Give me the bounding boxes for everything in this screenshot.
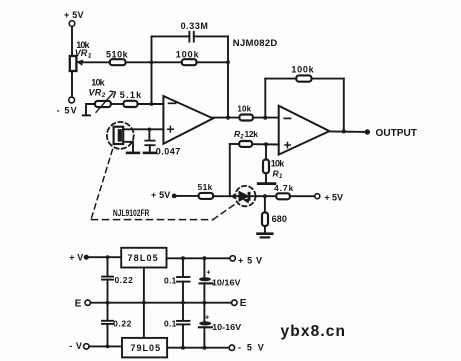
+V terminal: [84, 255, 89, 260]
svg-text:+: +: [205, 312, 210, 321]
capacitor 0.22 (bottom): [102, 321, 113, 324]
svg-text:10k: 10k: [91, 78, 105, 88]
ground (680): [258, 232, 273, 235]
VR1 wiper arrow: [78, 61, 87, 65]
svg-text:4.7k: 4.7k: [274, 183, 293, 193]
-5V supply terminal: [69, 97, 75, 103]
capacitor 0.1 (top): [177, 277, 190, 282]
wire feedback2 top left: [265, 78, 296, 80]
wire R1 bottom to ground: [265, 173, 267, 182]
+5V output terminal: [230, 256, 235, 261]
dashed circle around sensor: [107, 122, 134, 149]
svg-text:E: E: [240, 298, 247, 309]
svg-text:2: 2: [239, 135, 244, 141]
svg-text:0.33M: 0.33M: [181, 21, 208, 31]
node cap tap: [148, 128, 152, 132]
resistor 680 (vertical): [262, 212, 268, 226]
wire 680 top: [264, 196, 266, 212]
VR2 arrow: [96, 94, 113, 113]
ground (sensor): [127, 152, 139, 155]
microphone / sensor NJL9102FR element: [114, 127, 124, 144]
wire R1 top: [265, 144, 267, 159]
svg-text:0.1: 0.1: [164, 319, 177, 329]
node inv2: [263, 116, 267, 120]
svg-text:NJL9102FR: NJL9102FR: [113, 208, 150, 218]
resistor 51k: [199, 193, 214, 199]
wire VR1 bottom to -5V: [71, 71, 73, 97]
+5V supply terminal (top left): [69, 21, 75, 27]
wire sensor to op-amp + input: [123, 128, 163, 130]
node transistor right: [263, 194, 267, 198]
svg-text:10-16V: 10-16V: [212, 322, 241, 332]
svg-text:+ 5V: + 5V: [64, 10, 84, 20]
svg-text:510k: 510k: [106, 49, 129, 59]
regulator 78L05 box: [121, 248, 166, 268]
wire +V to 78L05: [89, 256, 121, 258]
svg-text:2: 2: [101, 92, 106, 99]
potentiometer VR1 10k body: [70, 56, 77, 71]
svg-text:0.22: 0.22: [115, 275, 134, 285]
wire node B vertical: [227, 36, 229, 117]
wire 10k to op-amp2 inverting input: [253, 117, 279, 119]
wire 680 bottom: [264, 226, 266, 233]
node nin2: [264, 142, 268, 146]
svg-text:VR: VR: [75, 48, 88, 58]
wire feedback2 right vertical: [343, 79, 345, 132]
svg-text:10k: 10k: [237, 105, 251, 114]
wire 0.22 caps vertical: [107, 257, 109, 276]
power junctions: [106, 255, 110, 259]
dashed circle around transistor: [235, 186, 255, 206]
wire regulator ground vertical: [143, 268, 145, 338]
wire node A to 100k: [152, 61, 182, 63]
wire 78L05 out to +5V: [167, 257, 231, 259]
ground (0.047): [144, 152, 156, 155]
svg-text:NJM082D: NJM082D: [233, 38, 278, 49]
wire node A vertical: [151, 36, 153, 104]
resistor R1 10k (vertical): [263, 160, 269, 174]
wire 51k to transistor: [213, 195, 239, 197]
svg-text:VR: VR: [89, 88, 102, 98]
wire -V to 79L05: [89, 345, 122, 347]
svg-text:+ 5 V: + 5 V: [238, 256, 262, 266]
svg-text:680: 680: [272, 214, 287, 224]
svg-text:5.1k: 5.1k: [120, 90, 142, 100]
node op1 out: [226, 116, 230, 120]
resistor 510k: [110, 59, 126, 65]
svg-text:+ 5V: + 5V: [151, 190, 170, 200]
wire 0.33M to node B vertical: [194, 35, 228, 37]
wire 510k to node A: [126, 61, 152, 63]
capacitor 10/16V electrolytic (top): [199, 277, 211, 281]
svg-text:-V: -V: [69, 341, 82, 351]
wire op-amp1 output to 10k: [213, 117, 239, 119]
wire cap 0.047 tap: [148, 129, 150, 140]
svg-text:0.047: 0.047: [156, 146, 181, 156]
regulator 79L05 box: [122, 338, 167, 358]
node A: [150, 60, 154, 64]
resistor 5.1k: [123, 101, 137, 107]
svg-text:+V: +V: [69, 252, 83, 262]
wire top to 0.33M cap: [152, 35, 190, 37]
wire to 12k: [230, 143, 239, 145]
phototransistor Q1 body: [239, 191, 249, 201]
capacitor 0.33M: [189, 32, 193, 42]
resistor 100k (second stage feedback): [296, 75, 311, 81]
wire 100k to node B: [197, 61, 229, 63]
svg-text:+ 5V: + 5V: [324, 192, 343, 202]
wire 4.7k to +5V terminal: [290, 195, 315, 197]
svg-text:+: +: [206, 268, 211, 277]
resistor 100k (first stage feedback): [182, 59, 197, 65]
svg-text:12k: 12k: [245, 129, 259, 139]
wire 79L05 out to -5V: [167, 347, 229, 349]
wire wiper to 510k: [84, 61, 110, 63]
svg-text:- 5 V: - 5 V: [238, 343, 264, 353]
resistor 10k (interstage): [239, 115, 253, 121]
capacitor 0.22 (top): [102, 277, 113, 280]
op-amp U1b triangle: [279, 106, 330, 155]
wire feedback2 top right: [312, 78, 344, 80]
capacitor 10-16V electrolytic (bottom): [199, 321, 211, 325]
wire 12k vertical from transistor node: [229, 144, 231, 196]
svg-text:51k: 51k: [198, 182, 213, 192]
-V terminal: [84, 344, 89, 349]
svg-text:79L05: 79L05: [131, 343, 161, 353]
-5V output terminal: [229, 345, 234, 350]
wire 12k to op-amp2 + input: [252, 143, 279, 145]
wire op-amp2 output: [329, 130, 364, 133]
wire +5V to 51k: [177, 195, 199, 197]
wire 5.1k to op-amp inverting input: [138, 103, 164, 105]
wire E rail: [90, 302, 231, 304]
svg-text:100k: 100k: [291, 64, 314, 74]
wire +5V to VR1 top: [71, 27, 73, 57]
svg-text:0.22: 0.22: [113, 319, 132, 329]
wire feedback2 left vertical: [264, 79, 266, 118]
E terminal left: [85, 300, 90, 305]
OUTPUT terminal: [365, 129, 370, 134]
+5V terminal (right): [315, 194, 320, 199]
op-amp U1a triangle: [163, 96, 213, 144]
+5V terminal (left, bias): [172, 194, 177, 199]
capacitor 0.047: [145, 141, 154, 146]
node op2 out: [342, 129, 346, 133]
dashed leader from sensor to NJL9102FR label: [92, 150, 113, 219]
svg-text:10/16V: 10/16V: [212, 277, 241, 287]
svg-text:100k: 100k: [176, 49, 200, 59]
svg-text:10k: 10k: [271, 159, 285, 169]
svg-text:OUTPUT: OUTPUT: [376, 128, 417, 139]
node inv1: [150, 102, 154, 106]
svg-text:1: 1: [88, 53, 92, 60]
wire transistor to 4.7k: [251, 195, 277, 197]
wire electrolytic vertical: [203, 258, 205, 277]
node B top: [226, 60, 230, 64]
wire 0.1 caps vertical: [182, 258, 184, 276]
svg-text:- 5V: - 5V: [57, 106, 77, 116]
capacitor 0.1 (bottom): [177, 321, 190, 325]
svg-text:E: E: [75, 299, 82, 310]
resistor 4.7k: [276, 193, 290, 199]
node transistor left: [232, 194, 236, 198]
resistor R2 12k: [239, 141, 252, 147]
svg-text:1: 1: [279, 174, 283, 180]
wire -5V stub for VR2: [86, 104, 95, 115]
wire VR2 to 5.1k: [111, 103, 124, 105]
svg-text:0.1: 0.1: [164, 275, 177, 285]
potentiometer VR2 10k body: [95, 101, 111, 107]
wire sensor lower terminal to ground: [123, 142, 133, 152]
ground (R1): [258, 182, 275, 185]
svg-text:ybx8.cn: ybx8.cn: [281, 323, 346, 340]
E terminal right: [232, 300, 237, 305]
svg-text:78L05: 78L05: [128, 253, 158, 263]
